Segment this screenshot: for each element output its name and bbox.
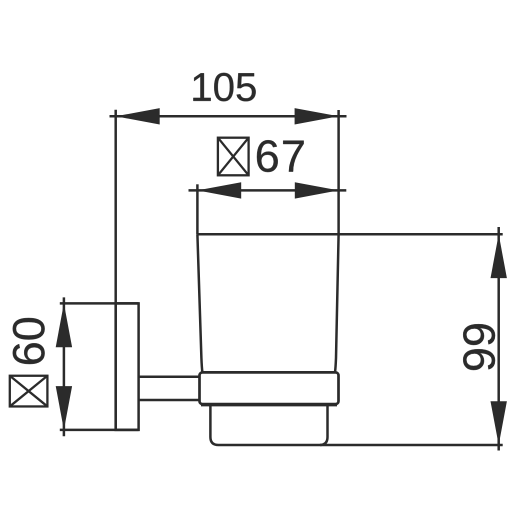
missing-glyph box of diameter symbol (60, rotated) [10,376,48,407]
dimension 67 line [189,189,347,192]
arm top line [139,375,200,378]
dimension 99 bottom arrow [491,401,507,445]
cup right side [335,234,339,372]
dimension text 99 (rotated) [463,324,495,370]
dimension 67 right arrow [295,182,339,198]
dimension 60 bottom arrow [56,386,72,430]
dimension 99 line [497,227,500,451]
dimension 105 right arrow [295,108,339,124]
dimension 105 left arrow [116,108,160,124]
cup lower body [210,404,327,445]
dimension 105 line [110,115,347,118]
cup rim [197,233,338,236]
dimension 60 top arrow [56,303,72,347]
dimension text 60 (rotated) [13,318,45,364]
dimension 67 left extension line [196,184,199,234]
dimension 99 top extension line [339,233,503,236]
dimension text 67 [257,140,304,172]
dimension 99 bottom extension line [320,444,503,447]
dimension 99 top arrow [491,234,507,278]
dimension 60 top extension line [60,302,139,305]
dimension 67 left arrow [197,182,241,198]
dimension 60 line [63,297,66,436]
arm bottom line [139,399,200,402]
dimension text 105 [193,73,255,101]
wall plate [116,303,139,430]
dimension 105 left extension line (wall line) [114,110,117,430]
dimension 60 bottom extension line [60,429,139,432]
missing-glyph box of diameter symbol (67) [218,138,249,176]
dimension 105 right extension line [337,110,340,234]
cup left side [197,234,202,372]
holder ring [200,372,339,404]
holder ring bottom edge [201,403,337,406]
